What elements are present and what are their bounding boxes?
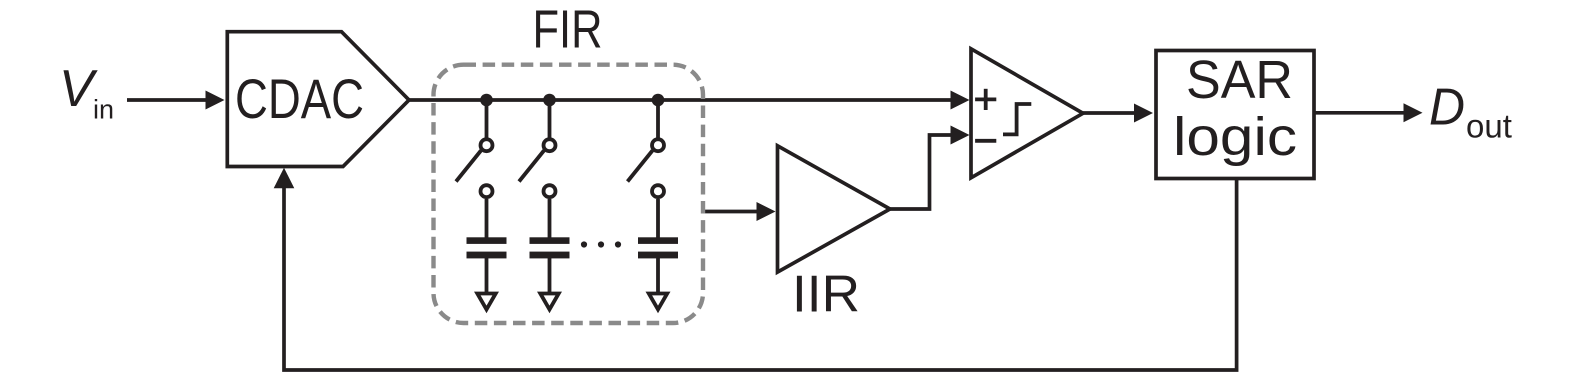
svg-text:in: in [93, 95, 114, 125]
svg-text:out: out [1466, 108, 1512, 145]
svg-text:IIR: IIR [792, 266, 860, 324]
svg-text:D: D [1429, 79, 1465, 137]
svg-text:CDAC: CDAC [235, 67, 364, 130]
svg-text:SAR: SAR [1186, 50, 1293, 110]
svg-text:logic: logic [1173, 107, 1297, 167]
svg-text:FIR: FIR [533, 0, 603, 60]
